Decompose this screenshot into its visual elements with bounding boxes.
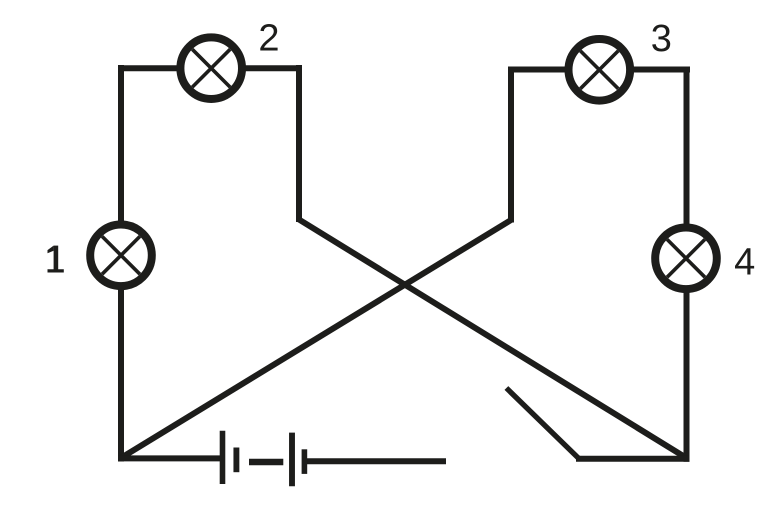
battery B1 short plate (left cell, negative) (233, 448, 239, 473)
wire inner-right vertical (left side of lamp-3 loop) (508, 67, 514, 223)
wire bottom-right horizontal (switch pivot to bottom-right corner) (576, 456, 690, 462)
wire right vertical (through lamp 4) (684, 67, 690, 462)
wire inner-left vertical (right side of lamp-2 loop) (296, 65, 302, 222)
svg-text:4: 4 (734, 242, 755, 284)
lamp L2 (180, 37, 242, 99)
wire top-left horizontal (through lamp 2) (118, 65, 302, 71)
battery B1 short plate (right cell, negative) (302, 449, 308, 474)
lamp L1 (90, 225, 152, 287)
switch S1 open lever (506, 388, 578, 458)
lamp L4 (655, 227, 717, 289)
wire top-right horizontal (through lamp 3) (508, 67, 690, 73)
svg-text:3: 3 (651, 18, 672, 60)
battery B1 tall plate (right cell, positive) (289, 433, 295, 487)
wire diagonal from inner-left vertical to bottom-right corner (299, 220, 687, 459)
wire diagonal from inner-right vertical to bottom-left corner (120, 220, 511, 459)
svg-text:2: 2 (258, 17, 279, 59)
lamp L3 (569, 39, 631, 101)
battery inter-cell link dash (249, 459, 283, 465)
wire bottom-left horizontal (node A to battery) (118, 455, 222, 461)
wire left vertical (battery negative up to top-left corner) (118, 65, 124, 462)
battery B1 tall plate (left cell, positive) (220, 431, 226, 484)
wire battery output horizontal (to open switch contact) (306, 458, 446, 464)
label 1 (lamp L1) (48, 246, 64, 273)
